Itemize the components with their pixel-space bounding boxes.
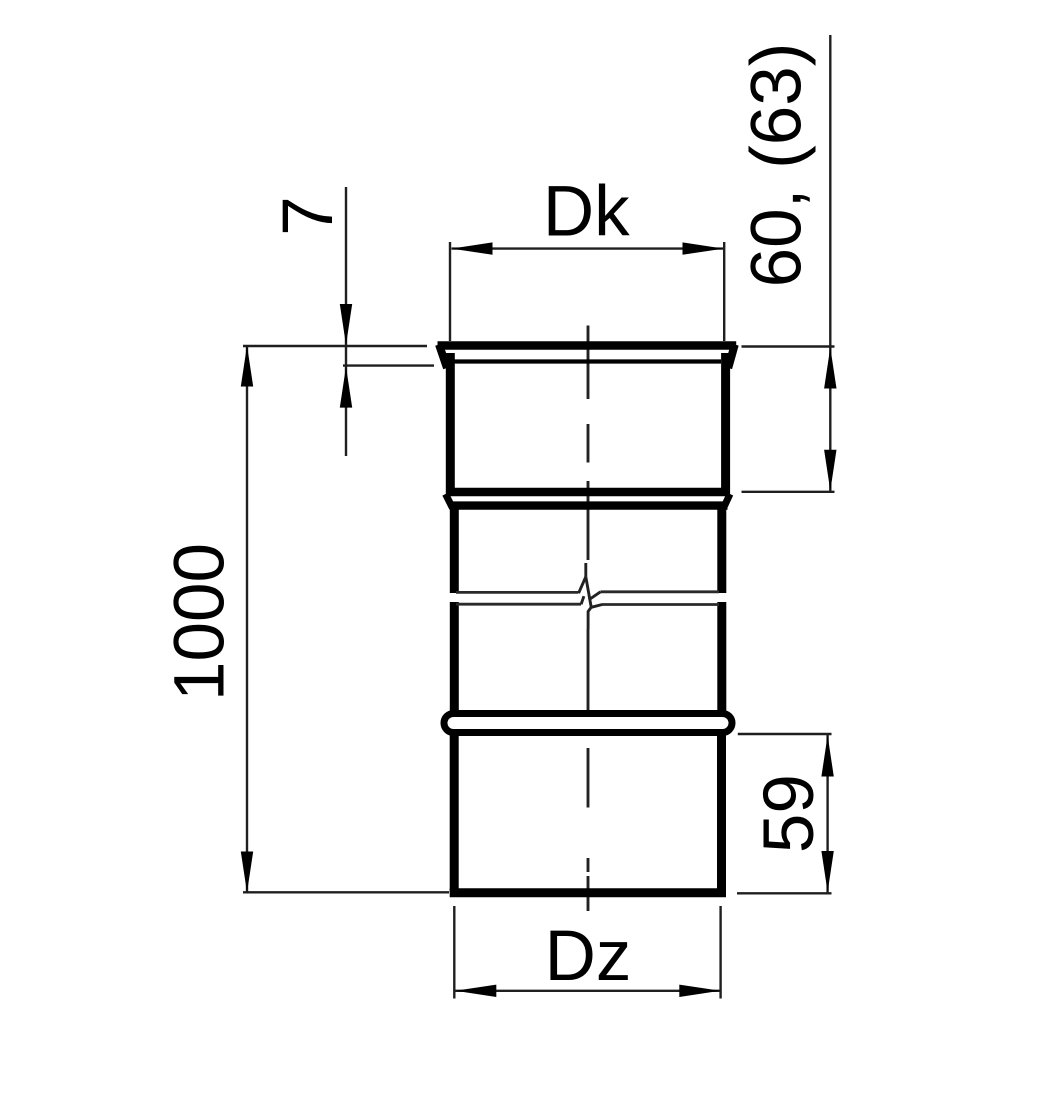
pipe body side walls upper segment: [454, 503, 722, 712]
dimension 1000 : arrows: [241, 346, 253, 387]
dimension 1000 : bottom extension line: [243, 891, 449, 893]
svg-text:Dk: Dk: [543, 173, 630, 252]
dimension 59 : dimension line: [826, 735, 828, 894]
break lines (thin interruption lines): [456, 592, 719, 605]
dimension 59 : arrows: [821, 736, 833, 777]
svg-text:60, (63): 60, (63): [738, 43, 817, 288]
svg-text:59: 59: [750, 774, 829, 853]
centerline (dash-dot axis): [587, 326, 590, 912]
dimension 7 : extension lines: [243, 187, 434, 456]
svg-text:7: 7: [269, 196, 348, 236]
break zigzag symbol: [579, 563, 603, 629]
svg-text:Dz: Dz: [545, 917, 632, 996]
dimension Dz : dimension line: [455, 990, 720, 992]
dimension Dz : extension lines: [454, 906, 720, 999]
dimension 59 : extension lines: [737, 734, 832, 893]
dimension Dz : arrows: [455, 985, 496, 997]
pipe bottom edge: [450, 888, 726, 897]
pipe flared collar top edge: [438, 345, 737, 369]
dimension Dk : extension lines: [450, 242, 724, 341]
socket section side walls: [450, 353, 725, 496]
dimension 60,(63) : extension lines: [742, 347, 835, 492]
dimension 7 : arrows: [340, 304, 352, 345]
dimension 60,(63) : dimension line: [829, 35, 831, 492]
dimension Dk : dimension line: [452, 247, 724, 249]
socket joint double line: [446, 492, 731, 508]
svg-text:1000: 1000: [161, 543, 240, 701]
dimension 1000 : dimension line: [246, 346, 248, 893]
dimension 60,(63) : arrows: [824, 348, 836, 389]
pipe body side walls lower segment: [454, 734, 721, 892]
rolled bead ring: [444, 714, 732, 733]
dimension Dk : arrows: [452, 242, 493, 254]
